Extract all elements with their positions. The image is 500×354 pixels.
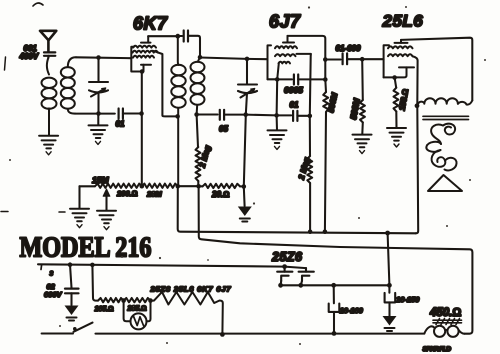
svg-text:165.Ω: 165.Ω (95, 306, 114, 313)
node: bottom rail / tuning cap (96, 111, 101, 116)
resistor 2 Meg (screen divider) (309, 116, 311, 156)
pilot lamp (124, 301, 151, 330)
node: 6K7 cathode (140, 69, 145, 74)
wire: antenna bottom rail (75, 113, 115, 115)
capacitor C1 .001 400V (44, 52, 55, 57)
capacitor .01 (cathode bypass to rail) (119, 109, 123, 119)
svg-text:16-160: 16-160 (340, 306, 364, 315)
ground arrow below 20 ohm (243, 187, 246, 207)
wire: left end (80, 185, 96, 187)
wire: 6J7 plate to coupling node (288, 36, 326, 60)
node: lamp right (148, 298, 153, 303)
wire: VC2 bottom lead down (244, 93, 247, 187)
variable capacitor VC1 (89, 82, 108, 97)
node: 25Z6 plate 1 (282, 264, 287, 269)
antenna coil primary L1 (42, 58, 57, 136)
tube 6K7 (131, 36, 158, 71)
tube 6J7 (268, 36, 297, 79)
svg-text:6K7: 6K7 (133, 14, 168, 34)
wire: 25L6 plate to output transformer (401, 38, 472, 101)
resistor 150 ohm cathode (395, 78, 397, 88)
node: 500M on B+ bus (323, 229, 328, 234)
node: 2Meg bottom (196, 184, 201, 189)
node: 25L6 grid return (360, 57, 365, 62)
node: rectifier feed on B+ bus (385, 231, 390, 236)
wire: AC line top (40, 264, 43, 269)
tube 25Z6 plates (277, 267, 314, 272)
label .001 400V (19, 44, 39, 61)
speaker voice coil scribble (426, 124, 456, 171)
tube 25L6 (384, 40, 414, 78)
wire: to 2Meg junction (178, 185, 199, 187)
wire: heater string drop (92, 265, 98, 301)
svg-text:6J7: 6J7 (269, 12, 301, 32)
wire: bracket bottom to cathode node (384, 76, 395, 78)
node: cathode line junction (139, 111, 144, 116)
wire: .05 line left (197, 113, 218, 115)
resistor 28M (142, 184, 178, 188)
resistor 285 ohm (124, 298, 151, 302)
node: cathode junction 1 (278, 283, 283, 288)
wire: tuning cap bottom lead (97, 93, 99, 114)
capacitor 16-150 (388, 285, 390, 292)
node: rail / tuning cap (96, 55, 101, 60)
output transformer primary (417, 98, 472, 106)
node: screen / output primary (415, 103, 420, 108)
capacitor .01-600 coupling (325, 58, 340, 60)
node: filter input (387, 283, 392, 288)
node: 16-160 on AC bus (332, 331, 337, 336)
node: VC2 / .05 line (243, 112, 248, 117)
svg-text:450.Ω: 450.Ω (429, 307, 461, 319)
wire: bracket bottom to cathode node (268, 78, 278, 80)
node: screen to IF primary return (175, 114, 180, 119)
svg-text:400V: 400V (19, 52, 39, 61)
node: plate / IF primary top (175, 34, 180, 39)
ground below 6J7 cathode (276, 115, 278, 130)
resistor 165 ohm (98, 298, 124, 302)
wire: 6K7 screen lead (153, 51, 177, 117)
switch (42, 332, 73, 334)
wire: 25L6 screen lead to B+ (413, 56, 419, 233)
wire: coupling node down to .0005 (324, 60, 326, 80)
node: 15M / 28M junction (cathode line) (140, 184, 145, 189)
stray dash near 60,212 (59, 211, 65, 213)
node: coupling node (323, 57, 328, 62)
wire: rectifier output line (281, 284, 390, 286)
speaker field coil 450 ohm (424, 326, 464, 337)
node: filter cap 16-160 (331, 283, 336, 288)
wire: to 25L6 grid (362, 58, 383, 60)
wire: 6J7 cathode drop (276, 79, 279, 115)
svg-text:150.Ω: 150.Ω (398, 88, 411, 111)
capacitor .01 (6J7 cathode bypass) (277, 114, 292, 116)
svg-text:MODEL 216: MODEL 216 (20, 233, 152, 264)
wire: trimmer to IF secondary top (188, 36, 200, 57)
resistor 20 ohm (199, 185, 203, 187)
IF transformer secondary (191, 58, 205, 115)
wire: tuning cap top lead (97, 58, 99, 83)
wire: B- bus (199, 186, 473, 333)
wire: B+ bus (178, 186, 416, 233)
wire: B+ drop to filter (388, 233, 390, 285)
node: lamp left (121, 298, 126, 303)
svg-text:3: 3 (50, 271, 54, 278)
svg-text:600V: 600V (44, 290, 63, 299)
svg-text:01: 01 (290, 101, 299, 110)
field coil core with hatching (433, 319, 462, 325)
IF transformer primary (171, 36, 185, 186)
node: 20 ohm right / VC2 line (242, 184, 247, 189)
wire: grid rail to 6K7 (76, 56, 131, 59)
svg-text:15M: 15M (92, 175, 109, 185)
wiper arrow to ground (105, 196, 107, 210)
speaker cone triangle (428, 175, 462, 191)
wire: AC bottom bus (96, 333, 425, 335)
wire: 6K7 cathode drop (141, 72, 143, 187)
antenna (40, 31, 56, 52)
capacitor 16-160 (333, 285, 335, 303)
node: IF secondary bottom (194, 112, 199, 117)
node: 6J7 cathode (275, 77, 280, 82)
tube 25Z6 cathodes (281, 276, 310, 286)
svg-text:25Z6: 25Z6 (271, 250, 303, 264)
wire: .05 to VC2 node, onward to 6J7 cathode (224, 114, 277, 117)
svg-text:200.Ω: 200.Ω (116, 189, 138, 198)
svg-text:20.Ω: 20.Ω (211, 190, 229, 199)
wire: secondary top to 6J7 grid (200, 58, 268, 60)
heater string zigzag (151, 292, 223, 335)
svg-text:25L6: 25L6 (382, 12, 424, 31)
ground: left end of 15M (78, 186, 80, 208)
ground below tuning cap (97, 114, 99, 126)
svg-text:01: 01 (116, 120, 125, 129)
capacitor: IF trimmer (178, 35, 182, 37)
svg-text:28M: 28M (146, 190, 162, 199)
label .02 600V (44, 282, 63, 299)
node: on B+ bus (308, 229, 313, 234)
stray mark top-left (33, 3, 43, 6)
ground arrow below .02 (65, 306, 79, 316)
svg-text:500M: 500M (348, 97, 362, 121)
resistor 500M (plate load) (324, 80, 327, 93)
node: cathode junction 2 (298, 283, 303, 288)
svg-text:500M: 500M (326, 92, 339, 114)
svg-text:05: 05 (219, 125, 228, 134)
node: heater string on AC bus (220, 332, 225, 337)
svg-text:2 Meg: 2 Meg (197, 144, 212, 169)
capacitor .0005 (277, 78, 292, 80)
wire: VC2 top lead (246, 59, 248, 85)
svg-text:0005: 0005 (284, 85, 303, 95)
resistor 15M (95, 184, 142, 188)
svg-text:16-150: 16-150 (396, 295, 420, 304)
node: grid rail / tuning cap 2 (245, 57, 250, 62)
capacitor .05 (220, 110, 224, 120)
ground below 150 ohm (387, 128, 406, 147)
node: heater string tap (90, 263, 95, 268)
wire: 6K7 plate lead (148, 35, 178, 37)
capacitor .02 600V (70, 265, 72, 288)
ground below grid leak (353, 135, 372, 154)
ground arrow below 16-150 (383, 316, 397, 326)
variable capacitor VC2 (238, 85, 257, 98)
wire: line to plate 2 (285, 267, 306, 269)
node: IF secondary top (198, 55, 203, 60)
resistor 2 Meg (IF sec return) (197, 115, 198, 148)
svg-text:285.Ω: 285.Ω (127, 306, 147, 313)
node: .0005 right end on plate drop (323, 77, 328, 82)
wire: cap to cathode node (123, 112, 142, 114)
stray dash left edge (1, 211, 8, 213)
node: 25L6 cathode (392, 75, 397, 80)
stray mark left edge (5, 57, 6, 70)
svg-text:SPKR FLD: SPKR FLD (423, 346, 452, 353)
node: .02 cap tap (68, 262, 73, 267)
node: .01 right / screen drop (308, 114, 313, 119)
svg-text:01-600: 01-600 (336, 44, 361, 53)
output transformer core (423, 116, 469, 119)
resistor 500M (grid leak) (361, 59, 364, 100)
antenna coil secondary L2 (61, 57, 76, 113)
node: IF primary bottom / AVC junction (176, 184, 181, 189)
wire: 6J7 screen lead (297, 54, 311, 116)
ground under antenna coil (39, 136, 58, 155)
node: cathode/.05 line/.01 (274, 113, 279, 118)
